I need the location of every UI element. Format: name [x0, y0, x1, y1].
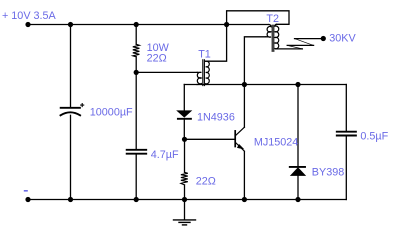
- wire collector rail y=84.5: [184, 84, 346, 86]
- transformer T1 core: [203, 60, 205, 86]
- svg-text:BY398: BY398: [312, 167, 344, 179]
- wire emitter vertical to bottom rail: [243, 151, 245, 199]
- wire node B down to 22 ohm resistor: [184, 139, 186, 172]
- wire diode column from rail to 1N4936: [183, 85, 185, 111]
- wire node A down to 4.7uF: [135, 72, 137, 148]
- node B dot diode/base: [182, 137, 187, 142]
- node dot bottom rail / 4.7uF: [134, 197, 139, 202]
- wire resistor bottom to node A: [135, 57, 137, 73]
- wire node B to base: [185, 138, 235, 140]
- wire right branch 0.5uF column: [345, 85, 347, 131]
- wire resistor column top: [135, 25, 137, 45]
- wire 1N4936 to node B: [183, 120, 185, 140]
- wire rail dot up-over to T2 secondary top: [227, 11, 289, 25]
- wire BY398 column bottom: [297, 175, 299, 199]
- node dot 30KV terminal: [321, 36, 326, 41]
- wire bottom rail (0V): [28, 199, 346, 201]
- wire left branch vertical (10000uF column): [70, 25, 72, 108]
- transformer T2 secondary winding (right, 4 bumps): [275, 24, 279, 49]
- node dot bottom rail / emitter: [242, 197, 247, 202]
- node dot bottom rail / ground: [182, 197, 187, 202]
- node dot top rail / T1-T2 link: [224, 22, 229, 27]
- svg-text:MJ15024: MJ15024: [254, 136, 298, 148]
- svg-text:+ 10V 3.5A: + 10V 3.5A: [2, 10, 57, 22]
- ground symbol: [184, 200, 186, 220]
- svg-text:22Ω: 22Ω: [147, 52, 167, 64]
- capacitor C3 0.5uF plates: [337, 131, 356, 133]
- node dot bottom negative terminal: [25, 197, 30, 202]
- svg-text:22Ω: 22Ω: [196, 175, 216, 187]
- capacitor C1 10000uF plates: [61, 107, 80, 109]
- node dot +10V terminal: [25, 22, 30, 27]
- wire BY398 column top: [297, 85, 299, 167]
- capacitor C2 4.7uF plates: [127, 149, 147, 151]
- svg-text:30KV: 30KV: [329, 33, 356, 45]
- transformer T2 core: [272, 25, 274, 51]
- label minus terminal: [24, 190, 28, 192]
- wire collector vertical: [243, 85, 245, 128]
- capacitor C1 plus mark: [81, 104, 84, 107]
- node A dot resistor / T1 primary: [134, 70, 139, 75]
- wire rail dot down to T1 secondary top: [206, 25, 227, 62]
- resistor R2 22ohm zigzag: [181, 172, 188, 185]
- svg-text:10000µF: 10000µF: [90, 107, 133, 119]
- transformer T1 secondary winding (right, 4 bumps): [206, 61, 210, 84]
- transistor Q1 MJ15024 base bar: [234, 131, 236, 147]
- svg-text:T1: T1: [198, 49, 211, 61]
- node dot collector rail: [242, 82, 247, 87]
- diode D2 BY398 (pointing up): [290, 166, 305, 168]
- svg-text:0.5µF: 0.5µF: [360, 131, 388, 143]
- wire 22 ohm to bottom rail: [184, 185, 186, 200]
- node dot BY398 top: [295, 82, 300, 87]
- transistor Q1 collector diagonal: [236, 127, 245, 135]
- spark gap arrow to 30KV: [276, 39, 322, 49]
- node dot bottom rail / 10000uF: [68, 197, 73, 202]
- resistor R1 10W 22ohm zigzag: [133, 44, 140, 57]
- svg-text:4.7µF: 4.7µF: [151, 149, 179, 161]
- transformer T2 primary winding (left, 2 bumps): [266, 25, 271, 38]
- transformer T1 primary winding (left, 2 bumps): [197, 72, 201, 84]
- node dot bottom rail / BY398: [295, 197, 300, 202]
- wire 4.7uF bottom to rail: [135, 155, 137, 200]
- svg-text:1N4936: 1N4936: [197, 112, 235, 124]
- wire node A to T1 primary top: [136, 71, 197, 73]
- node dot top rail / 10000uF: [68, 22, 73, 27]
- diode D1 1N4936: [178, 111, 192, 117]
- wire top rail +10V: [28, 24, 269, 26]
- wire T2 primary bottom to collector column: [244, 37, 266, 85]
- svg-text:T2: T2: [266, 13, 279, 25]
- transistor Q1 emitter diagonal with arrow: [236, 143, 245, 151]
- node dot top rail / resistor: [134, 22, 139, 27]
